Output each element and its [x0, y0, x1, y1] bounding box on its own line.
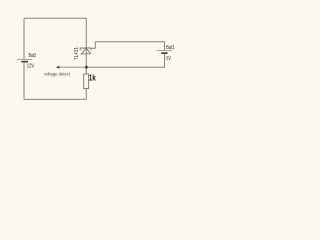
battery Bat1 long plate — [157, 50, 173, 52]
wire resistor to bottom rail — [85, 89, 87, 100]
svg-text:Bat2: Bat2 — [29, 53, 36, 59]
battery Bat2 long plate — [17, 58, 32, 60]
battery Bat1 short plate — [161, 52, 167, 54]
svg-text:voltage detect: voltage detect — [44, 71, 71, 76]
svg-text:1k: 1k — [89, 73, 96, 82]
battery Bat2 short plate — [21, 61, 28, 63]
svg-text:TL431: TL431 — [74, 47, 80, 60]
wire left rail upper — [23, 18, 25, 59]
wire top rail — [24, 17, 86, 19]
svg-text:Bat1: Bat1 — [166, 45, 174, 51]
svg-text:5V: 5V — [166, 56, 171, 62]
wire bottom rail — [24, 98, 86, 100]
wire ref top run to Bat1 — [95, 42, 164, 50]
op-amp U1 TL431 cathode bar — [80, 48, 91, 50]
wire left rail lower — [23, 62, 25, 99]
leader arrowhead — [56, 66, 60, 69]
resistor R1 box — [84, 74, 89, 89]
wire ref pin — [91, 42, 95, 49]
op-amp U1 TL431 triangle — [81, 48, 90, 54]
svg-text:12V: 12V — [27, 63, 35, 69]
wire Bat1 return — [86, 54, 164, 67]
wire leader to voltage detect — [59, 66, 86, 68]
wire cathode drop — [85, 18, 87, 74]
node junction dot — [85, 66, 88, 69]
